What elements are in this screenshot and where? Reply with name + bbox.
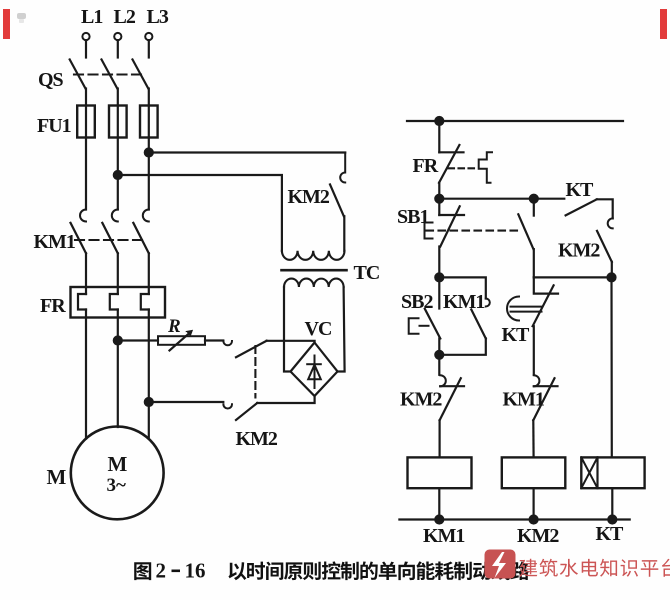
node junction coil KT bus — [608, 516, 616, 524]
svg-text:R: R — [167, 316, 181, 337]
thermal contact FR linkage dashed — [449, 167, 477, 169]
wire KT contact to corner — [597, 199, 613, 218]
resistor R adjust arrow — [170, 330, 193, 350]
time relay KT NO contact blade — [566, 199, 597, 215]
node junction coil KM1 bus — [435, 516, 443, 524]
contactor KM2 braking lower blade — [236, 403, 257, 420]
watermark icon — [485, 550, 516, 579]
svg-text:KM1: KM1 — [423, 525, 464, 547]
svg-text:KM2: KM2 — [288, 186, 330, 208]
svg-text:VC: VC — [305, 318, 332, 340]
svg-text:KM2: KM2 — [236, 428, 278, 450]
wire L2 KM1 to FR — [117, 253, 119, 294]
pushbutton SB1 NC — [439, 199, 464, 278]
contactor KM2 braking lower fixed arc — [223, 404, 232, 408]
node junction SB1 branch right — [530, 195, 538, 203]
svg-text:KM2: KM2 — [517, 525, 559, 547]
contactor KM1 interlock NC right — [533, 375, 557, 457]
red bar left — [3, 9, 10, 39]
svg-text:SB2: SB2 — [401, 291, 433, 313]
wire L3 KM1 to FR — [148, 253, 150, 294]
contactor KM2 primary-side blade — [330, 185, 344, 217]
pushbutton SB1 linkage dashed — [427, 230, 520, 232]
svg-text:FR: FR — [413, 155, 439, 177]
wire L3 FU1 to KM1 — [148, 138, 150, 210]
thermal contact FR NC — [439, 121, 464, 199]
rectifier VC diode — [307, 356, 321, 389]
wire tap W to KM2 braking lower contact — [149, 401, 224, 403]
svg-text:KT: KT — [502, 324, 531, 346]
switch QS linkage dashed — [74, 73, 142, 75]
control top bus — [407, 120, 623, 122]
fuse FU1 pole 1 — [77, 106, 95, 138]
wire secondary left lead to bridge left vertex — [284, 287, 291, 372]
svg-text:KM1: KM1 — [503, 389, 544, 411]
thermal relay FR heater 3 — [141, 294, 149, 310]
motor M circle — [71, 427, 164, 520]
node junction L2 tap — [114, 171, 122, 179]
svg-text:L1: L1 — [81, 6, 102, 28]
wire L3 QS to FU1 — [148, 89, 150, 106]
wire phase U to motor — [85, 310, 87, 439]
node junction braking tap V — [114, 337, 122, 345]
node junction mid rung right — [608, 273, 616, 281]
fuse FU1 pole 2 — [109, 106, 127, 138]
terminal L1 — [81, 6, 102, 40]
svg-text:3~: 3~ — [107, 475, 127, 496]
contactor KM1 pole 3 fixed contact arc — [143, 210, 149, 222]
pushbutton SB1 actuator E — [425, 223, 433, 239]
svg-text:L2: L2 — [114, 6, 136, 28]
caption text 以时间原则控制的单向能耗制动线路 — [228, 562, 246, 580]
svg-text:M: M — [108, 452, 128, 476]
rectifier VC bridge diamond — [291, 343, 338, 397]
wire L1 KM1 to FR — [85, 253, 87, 294]
terminal L3 — [145, 6, 169, 40]
contactor KM2 aux blade — [597, 231, 612, 262]
contactor KM1 pole 3 blade — [133, 223, 149, 254]
switch QS pole 2 blade — [102, 60, 118, 89]
svg-text:KM2: KM2 — [558, 240, 600, 262]
thermal relay FR box — [71, 287, 166, 318]
resistor R body — [158, 336, 205, 345]
wire L3 drop to QS — [148, 40, 150, 57]
svg-text:SB1: SB1 — [397, 206, 428, 228]
wire KM1 self-hold top — [439, 277, 486, 298]
pushbutton SB2 actuator E — [409, 318, 429, 333]
svg-text:KT: KT — [596, 523, 625, 545]
control bottom bus — [399, 518, 629, 520]
wire L1 QS to FU1 — [85, 89, 87, 106]
svg-text:KM1: KM1 — [34, 231, 75, 253]
wire phase W to motor — [148, 310, 150, 438]
contactor KM2 braking linkage dashed — [254, 346, 256, 398]
wire L1 drop to QS — [85, 40, 87, 57]
transformer TC primary lead right — [343, 216, 345, 251]
red bar right — [660, 9, 667, 39]
pushbutton SB2 NO — [425, 277, 441, 374]
wire blade to bridge top vertex — [267, 341, 315, 343]
contactor KM1 pole 1 blade — [71, 223, 87, 254]
node junction SB2 KM1 bottom — [435, 351, 443, 359]
terminal L2 — [114, 6, 136, 40]
svg-text:FU1: FU1 — [37, 115, 71, 137]
wire KM1 self-hold bottom — [439, 339, 486, 355]
coil KT box — [581, 457, 644, 488]
svg-text:KT: KT — [566, 179, 595, 201]
wire KM2 aux to junction — [611, 262, 613, 278]
wire rung horizontal — [439, 198, 564, 200]
switch QS pole 3 blade — [133, 60, 149, 89]
node control top junction — [435, 117, 443, 125]
pushbutton SB1 NO contact — [518, 199, 534, 278]
wire secondary right lead to bridge right vertex — [338, 287, 345, 372]
transformer TC primary winding — [282, 251, 345, 260]
wire L1 FU1 to KM1 — [85, 138, 87, 210]
wire coil KM1 to bus — [438, 488, 440, 519]
transformer TC core — [282, 269, 347, 272]
svg-text:KM1: KM1 — [443, 291, 484, 313]
wire L2 QS to FU1 — [117, 89, 119, 106]
svg-text:M: M — [47, 465, 67, 489]
node junction L3 tap — [145, 149, 153, 157]
node junction coil KM2 bus — [530, 516, 538, 524]
contactor KM1 self-hold blade — [471, 310, 486, 339]
svg-text:16: 16 — [185, 559, 206, 583]
svg-text:2: 2 — [156, 559, 167, 583]
transformer TC secondary winding — [284, 279, 344, 287]
faint logo smudge top-left — [17, 13, 26, 23]
wire coil KT to bus — [611, 488, 613, 519]
contactor KM1 self-hold arc — [486, 299, 490, 307]
time relay KT delayed NC contact — [533, 277, 558, 374]
wire resistor to KM2 braking upper contact — [205, 339, 223, 341]
svg-text:KM2: KM2 — [400, 389, 442, 411]
thermal relay FR heater 2 — [110, 294, 118, 310]
svg-text:QS: QS — [38, 69, 64, 91]
contactor KM2 braking upper fixed arc — [223, 341, 232, 345]
svg-text:FR: FR — [40, 295, 66, 317]
switch QS pole 1 blade — [70, 60, 86, 89]
wire coil KM2 to bus — [532, 488, 534, 519]
wire L3 tap to KM2 braking contact — [149, 151, 345, 153]
wire blade to bridge bottom vertex — [257, 396, 314, 403]
contactor KM2 aux arc — [608, 218, 613, 228]
contactor KM2 interlock NC — [440, 375, 464, 457]
watermark 建筑水电知识平台 — [519, 559, 537, 577]
wire tap to resistor R — [118, 339, 158, 341]
caption text 图 2-16 — [134, 562, 151, 580]
coil KM2 — [502, 457, 566, 488]
coil KM1 — [408, 457, 472, 488]
node control rung junction left — [435, 195, 443, 203]
thermal relay FR heater 1 — [78, 294, 86, 310]
wire L2 drop to QS — [117, 40, 119, 57]
contactor KM2 primary-side contact arc — [340, 153, 345, 183]
fuse FU1 pole 3 — [140, 106, 158, 138]
wire KT coil branch — [610, 277, 612, 457]
wire L2 FU1 to KM1 — [117, 138, 119, 210]
wire L2 tap to transformer primary left — [118, 175, 282, 251]
node junction mid rung left — [435, 273, 443, 281]
wire phase V to motor — [117, 310, 119, 428]
wire mid link rung — [534, 276, 612, 278]
contactor KM1 pole 1 fixed contact arc — [80, 210, 86, 222]
thermal contact FR actuator bracket — [479, 152, 492, 183]
motor M inner text — [107, 452, 128, 496]
svg-text:TC: TC — [354, 262, 380, 284]
contactor KM1 pole 2 blade — [102, 223, 118, 254]
svg-text:L3: L3 — [147, 6, 169, 28]
time relay KT delay symbol — [507, 297, 542, 321]
contactor KM1 linkage dashed — [75, 239, 143, 241]
contactor KM1 pole 2 fixed contact arc — [112, 210, 118, 222]
contactor KM2 braking upper blade — [236, 341, 267, 357]
node junction braking tap W — [145, 398, 153, 406]
